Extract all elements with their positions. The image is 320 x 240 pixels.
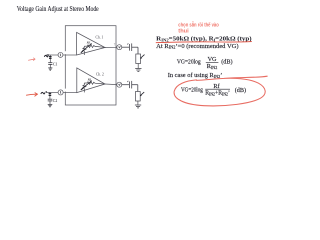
capacitor C1 bbox=[48, 63, 52, 68]
variable arrow ch1 bbox=[81, 43, 92, 53]
svg-text:C1: C1 bbox=[53, 62, 58, 66]
red arrow annotation ch2 bbox=[26, 93, 37, 96]
IC box bbox=[65, 26, 116, 105]
input element ch2 bbox=[49, 92, 52, 99]
wire input ch1 bbox=[46, 54, 77, 56]
svg-text:RIN2+RIN2’: RIN2+RIN2’ bbox=[205, 90, 230, 97]
hand-drawn source squiggle ch2 bbox=[41, 91, 47, 94]
svg-text:(dB): (dB) bbox=[235, 87, 246, 94]
resistor RL ch2 bbox=[136, 92, 141, 105]
ground ch1 output bbox=[135, 69, 141, 72]
variable arrow ch2 bbox=[81, 80, 92, 90]
svg-text:In case of using RIN2’: In case of using RIN2’ bbox=[168, 72, 223, 79]
arrow mark on RL ch1 bbox=[140, 55, 144, 59]
wire output ch1 bbox=[105, 46, 117, 48]
svg-text:Rf: Rf bbox=[86, 41, 91, 45]
red circle annotation around formula 2 bbox=[174, 76, 267, 106]
pin OUT ch1 bbox=[117, 45, 122, 50]
svg-text:Voltage Gain Adjust at Stereo: Voltage Gain Adjust at Stereo Mode bbox=[17, 5, 99, 13]
ground ch2 output bbox=[135, 105, 141, 108]
wire input ch2 bbox=[46, 91, 77, 93]
svg-text:VG=20log: VG=20log bbox=[181, 87, 203, 94]
ground C2 bbox=[48, 105, 53, 107]
op-amp U2 (Ch.2) bbox=[77, 68, 105, 93]
red arrow annotation ch1 bbox=[29, 58, 36, 61]
svg-text:Ch. 2: Ch. 2 bbox=[96, 73, 104, 77]
capacitor (output coupling) ch1 bbox=[122, 43, 138, 54]
ground C1 bbox=[48, 68, 52, 70]
input element ch1 bbox=[49, 55, 52, 62]
formula 1 fraction bar bbox=[206, 61, 219, 63]
svg-text:thui: thui bbox=[178, 29, 189, 35]
op-amp U1 (Ch.1) bbox=[77, 32, 105, 55]
formula 2 fraction bar bbox=[205, 88, 230, 90]
svg-text:Ch. 1: Ch. 1 bbox=[96, 35, 104, 39]
capacitor (output coupling) ch2 bbox=[122, 81, 138, 92]
red underline bbox=[156, 42, 252, 43]
pin IN ch2 bbox=[58, 90, 63, 95]
hand-drawn source squiggle ch1 bbox=[44, 54, 48, 56]
arrow mark on RL ch2 bbox=[140, 92, 144, 96]
svg-text:chọn sẵn rồi thế vào: chọn sẵn rồi thế vào bbox=[178, 21, 219, 28]
pin OUT ch2 bbox=[117, 82, 122, 87]
resistor RL ch1 bbox=[136, 54, 141, 68]
svg-text:At RIN2’=0 (recommended VG): At RIN2’=0 (recommended VG) bbox=[156, 43, 238, 50]
pin IN ch1 bbox=[58, 52, 63, 57]
svg-text:(dB): (dB) bbox=[221, 59, 232, 66]
svg-text:VG=20log: VG=20log bbox=[177, 59, 201, 66]
svg-text:7: 7 bbox=[114, 42, 116, 46]
feedback network ch2: resistor Rf bbox=[83, 82, 105, 93]
wire output ch2 bbox=[105, 83, 117, 86]
capacitor C2 bbox=[48, 99, 53, 104]
svg-text:C2: C2 bbox=[53, 99, 58, 103]
feedback network ch1: resistor Rf bbox=[83, 45, 105, 55]
svg-text:RIN2: RIN2 bbox=[207, 63, 218, 70]
svg-text:RIN2=50kΩ (typ), Rf=20kΩ (typ): RIN2=50kΩ (typ), Rf=20kΩ (typ) bbox=[156, 35, 251, 42]
